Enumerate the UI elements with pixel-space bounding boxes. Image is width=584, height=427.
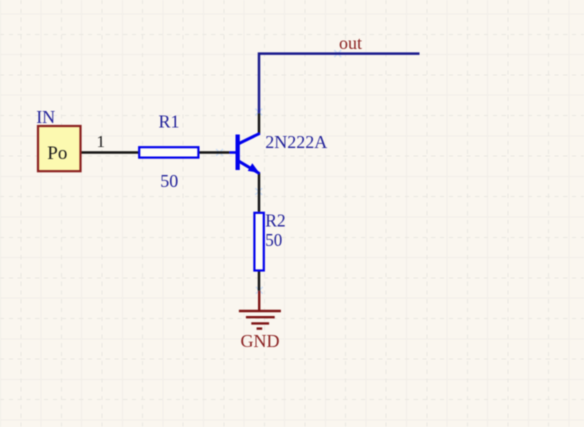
svg-text:out: out	[339, 33, 362, 53]
svg-text:1: 1	[97, 132, 106, 151]
svg-text:50: 50	[160, 171, 178, 191]
svg-text:Po: Po	[47, 143, 67, 164]
svg-text:50: 50	[265, 230, 282, 250]
svg-text:R1: R1	[159, 112, 180, 132]
svg-text:IN: IN	[36, 107, 55, 127]
svg-text:GND: GND	[241, 331, 280, 351]
svg-text:2N222A: 2N222A	[265, 132, 327, 152]
svg-text:R2: R2	[265, 210, 286, 230]
